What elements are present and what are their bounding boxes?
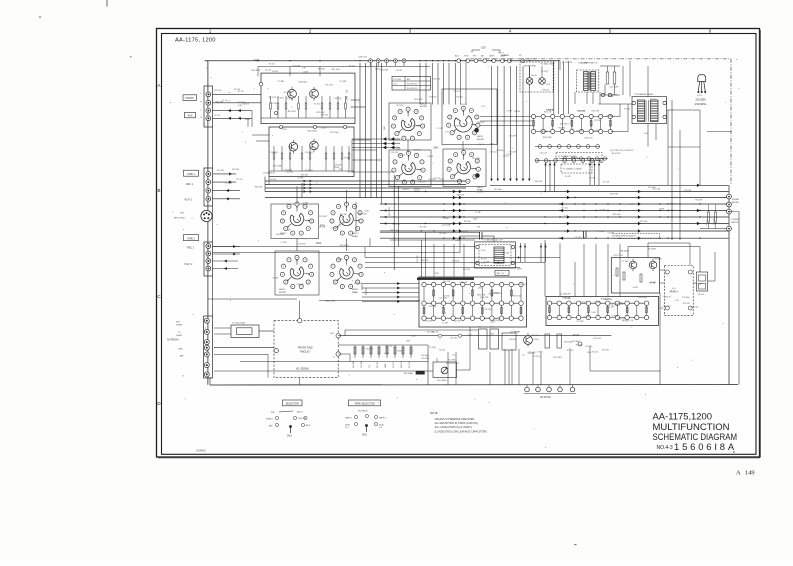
svg-text:NO.4-3: NO.4-3	[657, 445, 673, 451]
svg-text:C9 47(L): C9 47(L)	[575, 237, 582, 239]
svg-text:OHMS: OHMS	[176, 335, 183, 337]
svg-text:C9 47(L): C9 47(L)	[533, 356, 540, 358]
svg-text:PHONO: PHONO	[185, 98, 194, 100]
svg-text:R55 33K: R55 33K	[340, 214, 348, 216]
svg-text:0.047: 0.047	[644, 133, 649, 135]
svg-text:C7 33P: C7 33P	[442, 322, 449, 324]
svg-text:C7 33P: C7 33P	[302, 202, 309, 204]
svg-text:R55 33K: R55 33K	[509, 339, 517, 341]
svg-text:TO CERAMIC LOADER: TO CERAMIC LOADER	[563, 168, 583, 171]
svg-text:R2 150: R2 150	[349, 66, 355, 68]
svg-text:C18 10(L): C18 10(L)	[334, 165, 342, 167]
svg-text:R21 560: R21 560	[464, 221, 471, 223]
svg-text:C18 10(L): C18 10(L)	[298, 82, 308, 84]
svg-text:AM: AM	[180, 355, 183, 358]
svg-text:A: A	[736, 470, 741, 477]
svg-text:(L) INDICATES LOW LEAKAGE CAPA: (L) INDICATES LOW LEAKAGE CAPACITORS	[435, 430, 488, 433]
svg-text:C9 47(L): C9 47(L)	[331, 228, 338, 230]
svg-text:R44 100K: R44 100K	[276, 234, 285, 236]
svg-text:TAPE 2: TAPE 2	[187, 237, 195, 240]
svg-text:C7 33P: C7 33P	[277, 81, 285, 83]
svg-text:R9 1M: R9 1M	[565, 176, 571, 178]
svg-text:R2 150: R2 150	[565, 298, 571, 300]
svg-text:R31 6.8K: R31 6.8K	[460, 282, 468, 284]
svg-text:R40 8.2K: R40 8.2K	[618, 319, 626, 321]
svg-text:0.047: 0.047	[279, 128, 284, 130]
svg-text:R31 6.8K: R31 6.8K	[216, 102, 224, 104]
svg-text:PLAY 1: PLAY 1	[185, 199, 194, 202]
svg-text:C31 0.22: C31 0.22	[418, 181, 425, 183]
svg-text:0.047: 0.047	[321, 128, 326, 130]
svg-text:C9 47(L): C9 47(L)	[532, 339, 539, 341]
svg-text:R44 100K: R44 100K	[353, 360, 355, 368]
svg-text:C7 33P: C7 33P	[297, 178, 304, 180]
svg-text:R: R	[733, 450, 735, 454]
svg-text:C9 47(L): C9 47(L)	[429, 347, 436, 349]
svg-text:C7 33P: C7 33P	[506, 154, 513, 156]
svg-text:R2 150: R2 150	[594, 302, 600, 304]
svg-text:TR12 TR13: TR12 TR13	[613, 255, 623, 257]
svg-text:C9 47(L): C9 47(L)	[439, 298, 447, 300]
svg-text:C52 330: C52 330	[417, 256, 419, 262]
svg-text:R7 2.2K: R7 2.2K	[544, 112, 552, 114]
svg-text:C22 100P: C22 100P	[429, 306, 438, 308]
svg-text:C22 100P: C22 100P	[361, 361, 363, 368]
svg-text:R18 12K: R18 12K	[478, 122, 486, 124]
svg-text:R9 1M: R9 1M	[344, 158, 350, 160]
svg-text:TAPE 2: TAPE 2	[379, 417, 387, 420]
svg-text:R9 1M: R9 1M	[396, 70, 402, 72]
svg-text:R9 1M: R9 1M	[612, 95, 618, 97]
svg-text:C31 0.22: C31 0.22	[663, 306, 670, 308]
svg-text:C18 10(L): C18 10(L)	[496, 150, 504, 152]
svg-text:R7 2.2K: R7 2.2K	[433, 178, 440, 180]
svg-text:R9 1M: R9 1M	[428, 156, 434, 158]
svg-text:LAMP: LAMP	[489, 55, 495, 58]
svg-text:C18 10(L): C18 10(L)	[270, 152, 278, 154]
svg-text:R55 33K: R55 33K	[217, 170, 225, 172]
svg-text:EQ: EQ	[345, 90, 347, 93]
svg-text:B: B	[157, 188, 160, 193]
svg-text:R2 150: R2 150	[454, 321, 462, 323]
svg-text:R7 2.2K: R7 2.2K	[420, 227, 427, 229]
svg-text:SW2: SW2	[362, 435, 368, 437]
svg-text:C38 470: C38 470	[714, 219, 716, 225]
svg-text:R7 2.2K: R7 2.2K	[598, 231, 605, 233]
svg-text:1000P: 1000P	[245, 119, 251, 121]
svg-text:C31 0.22: C31 0.22	[580, 302, 587, 304]
svg-text:R2 150: R2 150	[602, 350, 610, 352]
svg-text:R21 560: R21 560	[613, 214, 622, 216]
svg-text:85-1/FM 530: 85-1/FM 530	[407, 84, 417, 86]
svg-text:AUX: AUX	[188, 115, 193, 118]
svg-text:R55 33K: R55 33K	[425, 321, 433, 323]
svg-text:R84 1K: R84 1K	[707, 218, 709, 225]
svg-text:R44 100K: R44 100K	[359, 213, 368, 215]
svg-text:PLAY 2: PLAY 2	[185, 263, 194, 266]
svg-text:CKT BRD: CKT BRD	[394, 79, 403, 81]
svg-text:R2 150: R2 150	[314, 103, 320, 105]
svg-text:R9 1M: R9 1M	[320, 225, 326, 227]
svg-text:BAT 7.5V: BAT 7.5V	[497, 272, 506, 275]
svg-text:C12 4.7: C12 4.7	[236, 179, 243, 181]
svg-text:CSM 0.1M: CSM 0.1M	[358, 57, 367, 59]
svg-text:0.047: 0.047	[591, 312, 596, 314]
svg-text:85-1/FM 580: 85-1/FM 580	[407, 88, 417, 90]
svg-text:C7 33P: C7 33P	[576, 321, 584, 323]
svg-text:R21 560: R21 560	[576, 345, 583, 347]
svg-text:R55 33K: R55 33K	[554, 357, 563, 359]
svg-text:0.047: 0.047	[443, 218, 449, 220]
svg-text:C18 10(L): C18 10(L)	[334, 98, 342, 100]
svg-text:C4 0.01: C4 0.01	[477, 144, 483, 146]
svg-text:0.047: 0.047	[633, 287, 639, 289]
svg-text:UNLESS OTHERWISE SPECIFIED: UNLESS OTHERWISE SPECIFIED	[435, 418, 475, 421]
svg-text:ALL CAPACITORS IN μF (50WV): ALL CAPACITORS IN μF (50WV)	[435, 426, 472, 429]
svg-text:R40 8.2K: R40 8.2K	[413, 150, 421, 152]
svg-text:C31 0.22: C31 0.22	[398, 155, 405, 157]
svg-text:1000P: 1000P	[411, 336, 417, 338]
svg-text:0.047: 0.047	[617, 302, 622, 304]
svg-text:C18 10(L): C18 10(L)	[572, 341, 580, 343]
svg-text:AS FRONT: AS FRONT	[612, 152, 621, 155]
svg-text:NO. 5505A5: NO. 5505A5	[296, 368, 309, 371]
svg-text:C4 0.01: C4 0.01	[265, 69, 271, 71]
svg-text:15094DD: 15094DD	[196, 451, 206, 453]
svg-text:R2 150: R2 150	[650, 99, 656, 101]
svg-text:R40 8.2K: R40 8.2K	[535, 181, 543, 183]
svg-text:1000P: 1000P	[384, 353, 390, 355]
svg-text:C4 0.01: C4 0.01	[402, 189, 408, 191]
svg-text:SOURCE: SOURCE	[358, 411, 368, 413]
svg-text:SIGNAL: SIGNAL	[732, 198, 740, 201]
svg-text:R2 150: R2 150	[238, 91, 244, 93]
svg-text:NOTE: NOTE	[430, 411, 438, 415]
svg-text:15606I8A: 15606I8A	[674, 441, 737, 452]
svg-text:AA-1175,1200: AA-1175,1200	[653, 411, 713, 421]
svg-text:a b: a b	[228, 92, 231, 94]
svg-text:R55 33K: R55 33K	[299, 243, 307, 245]
svg-text:FRONT: FRONT	[279, 292, 287, 294]
svg-text:R9 1M: R9 1M	[488, 294, 494, 296]
svg-text:C18 10(L): C18 10(L)	[421, 355, 429, 357]
svg-text:R31 6.8K: R31 6.8K	[640, 221, 648, 223]
svg-text:R18 12K: R18 12K	[443, 281, 451, 283]
svg-text:C7 33P: C7 33P	[437, 128, 444, 130]
svg-text:FRONT: FRONT	[420, 106, 428, 108]
svg-text:R31 6.8K: R31 6.8K	[653, 189, 661, 191]
svg-text:R12 47K: R12 47K	[288, 111, 297, 113]
svg-text:R55 33K: R55 33K	[377, 361, 379, 368]
svg-text:R44 100K: R44 100K	[380, 70, 389, 72]
svg-text:R18 12K: R18 12K	[565, 62, 573, 64]
svg-text:R2 150: R2 150	[514, 111, 520, 113]
svg-text:AMP: AMP	[345, 96, 348, 101]
svg-text:R21 560: R21 560	[594, 120, 601, 122]
svg-text:SELECTOR: SELECTOR	[285, 402, 299, 405]
svg-text:0.047: 0.047	[490, 321, 495, 323]
svg-text:C7 33P: C7 33P	[339, 222, 346, 224]
svg-text:REC 2: REC 2	[187, 247, 195, 250]
svg-text:T10: T10	[452, 355, 455, 357]
svg-text:R21 560: R21 560	[332, 69, 341, 71]
svg-text:MULTIFUNCTION: MULTIFUNCTION	[653, 421, 730, 432]
svg-text:R2 150: R2 150	[451, 337, 459, 339]
svg-text:R7 2.2K: R7 2.2K	[269, 97, 277, 99]
svg-text:ANTENNA: ANTENNA	[167, 339, 179, 342]
svg-text:SW2-2: SW2-2	[352, 233, 359, 235]
svg-text:METER: METER	[731, 222, 739, 224]
svg-text:C7 33P: C7 33P	[606, 115, 613, 117]
svg-text:R21 560: R21 560	[576, 130, 583, 132]
svg-text:PM1 GANG: PM1 GANG	[437, 379, 447, 382]
svg-text:R18 12K: R18 12K	[430, 97, 438, 99]
svg-text:C9 47(L): C9 47(L)	[225, 183, 232, 185]
svg-text:R2 150: R2 150	[413, 126, 419, 128]
svg-text:FM MUTE: FM MUTE	[540, 397, 551, 399]
svg-text:R44 100K: R44 100K	[472, 158, 481, 160]
svg-text:AM IF: AM IF	[548, 109, 554, 112]
svg-text:C7 33P: C7 33P	[471, 263, 478, 265]
svg-text:R2 150: R2 150	[269, 64, 275, 66]
svg-text:R12 47K: R12 47K	[477, 191, 485, 193]
svg-text:C31 0.22: C31 0.22	[527, 58, 534, 60]
svg-text:R9 1M: R9 1M	[658, 308, 664, 310]
svg-text:C4 0.01: C4 0.01	[531, 75, 537, 77]
svg-text:R44 100K: R44 100K	[308, 130, 318, 132]
svg-text:C18 10(L): C18 10(L)	[305, 152, 313, 154]
svg-text:C22 100P: C22 100P	[580, 63, 589, 65]
svg-text:C18 10(L): C18 10(L)	[340, 245, 350, 247]
svg-text:R12 47K: R12 47K	[463, 269, 471, 271]
svg-text:C9 47(L): C9 47(L)	[599, 209, 606, 211]
svg-text:LED: LED	[481, 47, 486, 50]
svg-text:R55 33K: R55 33K	[509, 136, 517, 138]
svg-text:SW1-1: SW1-1	[477, 187, 484, 189]
svg-text:R22 560: R22 560	[232, 169, 239, 171]
svg-text:C9 47(L): C9 47(L)	[541, 71, 548, 73]
svg-text:a b: a b	[228, 101, 231, 103]
svg-text:C7 33P: C7 33P	[621, 261, 629, 263]
svg-text:10A 100BK: 10A 100BK	[620, 250, 630, 253]
svg-text:FM(2U3): FM(2U3)	[300, 351, 310, 354]
svg-text:C9 47(L): C9 47(L)	[490, 152, 497, 154]
svg-text:R55 33K: R55 33K	[558, 127, 566, 129]
svg-text:SW2-1: SW2-1	[352, 289, 359, 291]
svg-text:AUTO: AUTO	[297, 410, 303, 413]
svg-text:C31 0.22: C31 0.22	[391, 152, 398, 154]
svg-text:SW2: SW2	[316, 243, 322, 245]
svg-text:MONO: MONO	[266, 419, 273, 421]
svg-text:R40 8.2K: R40 8.2K	[457, 195, 465, 197]
svg-text:GT3 GA5: GT3 GA5	[494, 188, 502, 191]
svg-text:1000P: 1000P	[385, 363, 387, 368]
svg-text:R2 150: R2 150	[562, 208, 568, 210]
svg-text:R18 12K: R18 12K	[670, 204, 678, 206]
svg-text:R40 8.2K: R40 8.2K	[592, 130, 600, 132]
svg-text:REC-PLAY: REC-PLAY	[174, 217, 185, 220]
svg-text:R21 560: R21 560	[397, 105, 404, 107]
svg-text:1000P: 1000P	[337, 259, 343, 261]
svg-text:149: 149	[745, 470, 755, 477]
svg-text:SW1-1: SW1-1	[477, 136, 484, 138]
svg-text:GND: GND	[178, 349, 183, 351]
svg-text:R21 560: R21 560	[513, 296, 522, 298]
svg-text:R9 1M: R9 1M	[624, 108, 630, 110]
svg-text:TO BAR ANT (4) LOOP: TO BAR ANT (4) LOOP	[483, 239, 504, 242]
svg-text:R40 8.2K: R40 8.2K	[691, 307, 699, 309]
svg-text:METER: METER	[732, 202, 740, 204]
svg-text:PGM: PGM	[464, 56, 469, 58]
svg-text:C18 10(L): C18 10(L)	[638, 297, 648, 299]
svg-text:FRONT END: FRONT END	[524, 66, 537, 68]
svg-text:2SC900: 2SC900	[696, 97, 707, 101]
svg-text:SW2-1: SW2-1	[279, 289, 286, 291]
svg-text:R55 33K: R55 33K	[604, 299, 613, 301]
svg-text:FM: FM	[473, 56, 476, 58]
svg-text:R9 1M: R9 1M	[514, 331, 520, 333]
svg-text:R2 150: R2 150	[439, 350, 445, 352]
svg-text:0.047: 0.047	[365, 211, 370, 213]
svg-text:C7 33P: C7 33P	[475, 212, 482, 214]
svg-text:A: A	[157, 83, 160, 88]
svg-text:0.047: 0.047	[287, 229, 292, 231]
svg-text:R21 560: R21 560	[528, 353, 535, 355]
svg-text:C7 33P: C7 33P	[696, 283, 703, 285]
svg-text:C7 33P: C7 33P	[339, 81, 347, 83]
svg-text:C22 100P: C22 100P	[273, 165, 283, 167]
svg-text:R18 12K: R18 12K	[542, 90, 550, 92]
svg-text:R12 47K: R12 47K	[393, 361, 395, 368]
svg-text:R2 150: R2 150	[214, 115, 220, 117]
svg-text:REAR: REAR	[352, 235, 358, 238]
svg-text:R40 8.2K: R40 8.2K	[663, 297, 671, 299]
svg-text:0A 100BF: 0A 100BF	[648, 248, 657, 251]
svg-text:C7 33P: C7 33P	[506, 110, 513, 112]
svg-text:SW1: SW1	[287, 436, 293, 438]
svg-text:W-1 SECT: W-1 SECT	[560, 124, 570, 126]
svg-text:R18 12K: R18 12K	[452, 261, 460, 263]
svg-text:TUNING: TUNING	[731, 219, 739, 221]
svg-text:C4 0.01: C4 0.01	[503, 156, 509, 158]
svg-text:1000P: 1000P	[517, 268, 523, 270]
svg-text:R31 6.8K: R31 6.8K	[460, 104, 468, 106]
svg-text:C7 33P: C7 33P	[628, 204, 635, 206]
svg-text:C7 33P: C7 33P	[608, 233, 615, 235]
svg-text:R9 1M: R9 1M	[493, 293, 499, 295]
svg-text:R21 560: R21 560	[433, 78, 440, 80]
svg-text:1000P: 1000P	[397, 351, 403, 353]
svg-text:R40 8.2K: R40 8.2K	[255, 186, 263, 188]
svg-text:C7 33P: C7 33P	[281, 242, 288, 244]
svg-text:R44 100K: R44 100K	[564, 342, 573, 344]
svg-text:R12 47K: R12 47K	[585, 346, 593, 348]
svg-text:C31 0.22: C31 0.22	[283, 92, 290, 94]
svg-text:C9 47(L): C9 47(L)	[286, 98, 293, 100]
svg-text:(4) LADDER: (4) LADDER	[560, 293, 571, 296]
svg-text:1000P: 1000P	[254, 60, 261, 62]
svg-text:R31 6.8K: R31 6.8K	[654, 259, 662, 261]
svg-text:AA-1175, 1200: AA-1175, 1200	[175, 37, 216, 43]
svg-text:AM: AM	[269, 425, 272, 428]
svg-text:C31 0.22: C31 0.22	[593, 338, 602, 340]
svg-text:R21 560: R21 560	[347, 172, 354, 174]
svg-text:C18 10(L): C18 10(L)	[330, 132, 340, 134]
svg-text:DIN: DIN	[180, 213, 184, 215]
svg-text:TAPE 1: TAPE 1	[187, 173, 195, 176]
svg-text:C31 0.22: C31 0.22	[453, 91, 460, 93]
svg-text:FL3: FL3	[490, 327, 493, 329]
svg-text:R21 560: R21 560	[571, 157, 578, 159]
svg-text:C4 0.01: C4 0.01	[578, 110, 586, 112]
svg-text:0.047: 0.047	[481, 250, 486, 252]
svg-text:C4 0.01: C4 0.01	[684, 190, 692, 192]
svg-text:C9 47(L): C9 47(L)	[277, 97, 284, 99]
svg-text:TAPE SELECTOR: TAPE SELECTOR	[354, 402, 375, 405]
svg-text:C31 0.22: C31 0.22	[393, 224, 400, 226]
svg-text:R55 33K: R55 33K	[502, 253, 510, 255]
svg-text:R9 1M: R9 1M	[573, 334, 579, 336]
svg-text:R40 8.2K: R40 8.2K	[421, 260, 429, 262]
svg-text:TAPE 1: TAPE 1	[345, 417, 353, 420]
svg-text:R12 47K: R12 47K	[607, 307, 615, 309]
svg-text:R12 47K: R12 47K	[366, 349, 374, 351]
svg-text:R9 1M: R9 1M	[670, 290, 676, 292]
svg-text:C18 10(L): C18 10(L)	[682, 297, 690, 299]
svg-text:AUX: AUX	[306, 424, 311, 427]
svg-text:C22 100P: C22 100P	[319, 216, 328, 218]
svg-text:C22 100P: C22 100P	[442, 225, 452, 227]
svg-text:(4) FILTER OF (4) COMPLETE: (4) FILTER OF (4) COMPLETE	[610, 150, 634, 152]
svg-text:R9 1M: R9 1M	[272, 71, 278, 73]
svg-text:C31 0.22: C31 0.22	[540, 152, 547, 154]
svg-text:R40 8.2K: R40 8.2K	[390, 230, 398, 232]
svg-text:C18 10(L): C18 10(L)	[484, 309, 492, 311]
svg-text:R55 33K: R55 33K	[695, 200, 703, 202]
svg-text:R21 560: R21 560	[215, 90, 222, 92]
svg-text:ALL RESISTORS IN OHMS (1/4W,5%: ALL RESISTORS IN OHMS (1/4W,5%)	[435, 422, 478, 425]
svg-text:0.047: 0.047	[303, 71, 309, 73]
svg-text:1000P: 1000P	[395, 149, 401, 151]
svg-text:REAR: REAR	[352, 291, 358, 294]
svg-text:C22 100P: C22 100P	[354, 283, 363, 285]
svg-text:R12 47K: R12 47K	[269, 179, 277, 181]
svg-text:R9 1M: R9 1M	[590, 178, 596, 180]
svg-text:R9 1M: R9 1M	[649, 282, 655, 284]
svg-text:0.047: 0.047	[467, 335, 472, 337]
svg-text:C9 47(L): C9 47(L)	[455, 97, 463, 99]
svg-text:SA 5100AB: SA 5100AB	[404, 372, 414, 375]
svg-text:REC 1: REC 1	[186, 183, 194, 186]
svg-text:R55 33K: R55 33K	[297, 284, 305, 286]
svg-text:C7 33P: C7 33P	[454, 126, 461, 128]
svg-text:SW1: SW1	[434, 148, 440, 150]
svg-text:C9 47(L): C9 47(L)	[611, 315, 618, 317]
svg-text:C31 0.22: C31 0.22	[584, 137, 593, 139]
svg-text:C31 0.22: C31 0.22	[461, 231, 468, 233]
svg-text:0.047: 0.047	[440, 179, 445, 181]
svg-text:R5 56K: R5 56K	[318, 69, 326, 71]
svg-text:FM: FM	[271, 412, 274, 414]
svg-text:R12 47K: R12 47K	[610, 193, 619, 195]
svg-text:G: G	[182, 376, 184, 378]
svg-text:R21 560: R21 560	[414, 99, 423, 101]
svg-text:R7 2.2K: R7 2.2K	[603, 181, 610, 183]
svg-text:TRANS DEMODULATOR: TRANS DEMODULATOR	[614, 235, 636, 238]
svg-text:R21 560: R21 560	[584, 317, 591, 319]
svg-text:R61 18-330: R61 18-330	[389, 207, 391, 216]
svg-text:R18 12K: R18 12K	[321, 114, 329, 116]
